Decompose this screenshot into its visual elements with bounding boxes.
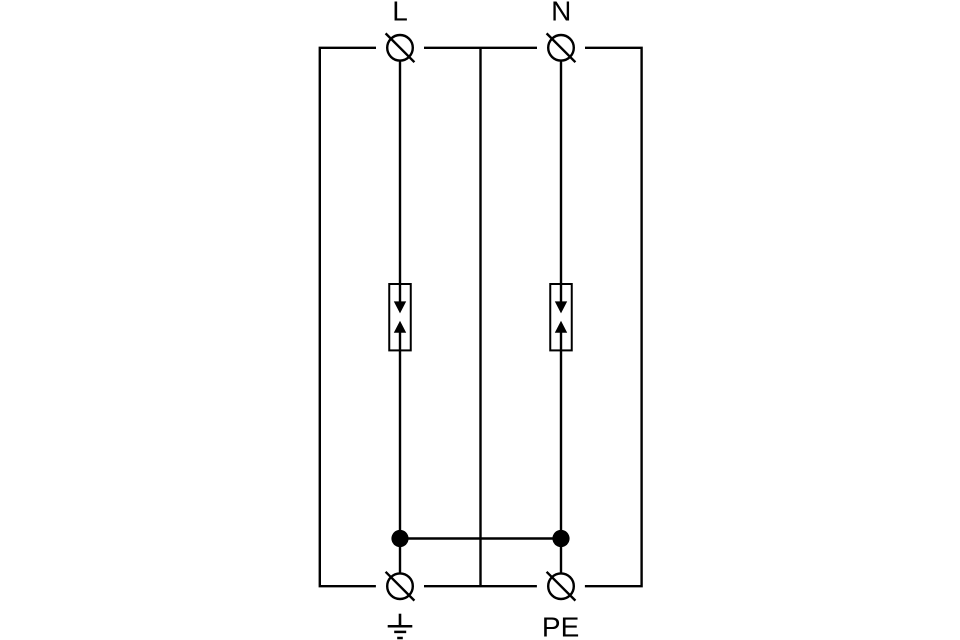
svg-text:PE: PE xyxy=(542,612,579,640)
spark gap arrester L-PE (box) xyxy=(389,284,411,350)
wire: N branch upper (terminal N down into spark gap, arrow shaft) xyxy=(560,48,562,302)
terminal L (circle with slash) xyxy=(386,33,415,62)
wire: bottom bus middle segment between ground terminal and PE terminal xyxy=(424,585,537,587)
wire: enclosure outline right (top-right segment, right edge, bottom-right segment) xyxy=(585,48,642,586)
svg-text:L: L xyxy=(392,0,408,26)
node L-PE (junction dot) xyxy=(391,530,408,547)
wire: enclosure outline left (top-left segment, left edge, bottom-left segment) xyxy=(320,48,376,586)
spark gap arrester L-PE up arrowhead xyxy=(394,321,406,333)
node N-PE (junction dot) xyxy=(552,530,569,547)
spark gap arrester N-PE down arrowhead xyxy=(555,301,567,313)
terminal ground-side (circle with slash) xyxy=(386,572,415,601)
wire: L branch upper (terminal L down into spark gap, arrow shaft) xyxy=(399,48,401,302)
wire: top bus middle segment between terminals L and N xyxy=(424,47,537,49)
wire: center vertical link from top bus to bottom bus xyxy=(479,48,481,586)
ground xyxy=(388,614,413,638)
terminal N (circle with slash) xyxy=(547,33,576,62)
terminal PE (circle with slash) xyxy=(547,572,576,601)
spark gap arrester L-PE down arrowhead xyxy=(394,301,406,313)
spark gap arrester N-PE up arrowhead xyxy=(555,321,567,333)
wire: junction link between node L-PE and node N-PE xyxy=(400,537,561,539)
svg-text:N: N xyxy=(551,0,571,26)
wire: L branch lower (spark gap through junction to bottom terminal, arrow shaft) xyxy=(399,333,401,587)
spark gap arrester N-PE (box) xyxy=(550,284,572,350)
wire: N branch lower (spark gap through junction to PE terminal, arrow shaft) xyxy=(560,333,562,587)
